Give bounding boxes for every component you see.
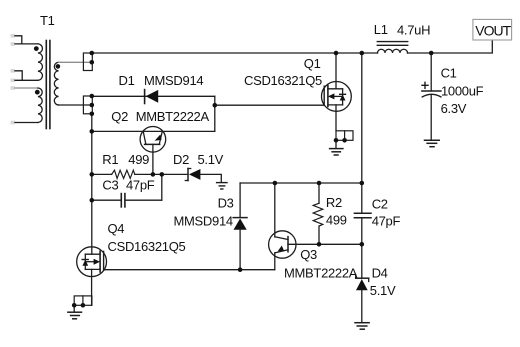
svg-text:D3: D3 (218, 196, 234, 211)
svg-text:L1: L1 (374, 22, 388, 37)
svg-text:C2: C2 (372, 196, 388, 211)
svg-text:D1: D1 (119, 73, 135, 88)
svg-text:C1: C1 (441, 66, 457, 81)
svg-text:C3: C3 (102, 178, 118, 193)
svg-text:499: 499 (326, 212, 347, 227)
svg-text:5.1V: 5.1V (198, 152, 224, 167)
svg-text:6.3V: 6.3V (441, 101, 467, 116)
svg-text:4.7uH: 4.7uH (397, 22, 430, 37)
svg-text:VOUT: VOUT (475, 22, 511, 38)
svg-text:Q4: Q4 (108, 221, 125, 236)
svg-text:47pF: 47pF (126, 178, 155, 193)
svg-text:CSD16321Q5: CSD16321Q5 (108, 239, 186, 254)
svg-text:D2: D2 (173, 152, 189, 167)
svg-text:5.1V: 5.1V (370, 283, 396, 298)
svg-text:47pF: 47pF (372, 214, 401, 229)
svg-text:MMBT2222A: MMBT2222A (136, 109, 210, 124)
svg-text:499: 499 (128, 152, 149, 167)
svg-text:CSD16321Q5: CSD16321Q5 (244, 73, 322, 88)
svg-text:R1: R1 (102, 152, 118, 167)
svg-text:R2: R2 (326, 195, 342, 210)
svg-text:Q2: Q2 (111, 109, 128, 124)
svg-text:Q1: Q1 (304, 56, 321, 71)
svg-text:MMBT2222A: MMBT2222A (284, 266, 358, 281)
svg-text:MMSD914: MMSD914 (174, 214, 233, 229)
svg-text:D4: D4 (372, 266, 388, 281)
svg-text:Q3: Q3 (300, 247, 317, 262)
svg-text:T1: T1 (40, 13, 55, 28)
svg-text:1000uF: 1000uF (441, 83, 484, 98)
svg-text:MMSD914: MMSD914 (144, 73, 203, 88)
